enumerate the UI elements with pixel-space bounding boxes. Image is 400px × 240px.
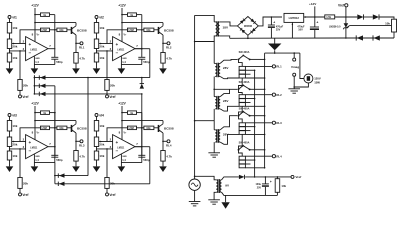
wire bottom bus column: [54, 163, 56, 184]
diode D9: [355, 35, 357, 40]
potentiometer R3b 20k: [7, 137, 11, 147]
wire lower diode line: [346, 37, 394, 39]
svg-text:+12V: +12V: [31, 102, 39, 106]
capacitor C5 470uF 25V: [270, 17, 272, 25]
wire vI3 to R3a: [9, 117, 11, 121]
wire node column x88: [87, 78, 89, 176]
ground: [93, 68, 101, 74]
reference U6 LM336-5.0: [345, 17, 347, 38]
svg-text:LM311: LM311: [30, 49, 38, 51]
diode D10: [372, 35, 374, 40]
wire vI1 to R1a: [9, 19, 11, 23]
svg-text:BC558: BC558: [77, 126, 87, 130]
wire AC source to earth: [194, 190, 196, 201]
ground op-amp: [118, 68, 126, 74]
resistor R4a 10k: [94, 121, 98, 132]
svg-text:10k: 10k: [146, 127, 151, 130]
wire pot tap to op-amp pin 2: [12, 43, 26, 45]
resistor R4c 10k: [94, 151, 98, 160]
ground 4.7k: [72, 166, 80, 172]
wire Vref output line: [245, 176, 291, 178]
ground: [6, 166, 14, 172]
ground op-amp: [31, 166, 39, 172]
svg-text:10k: 10k: [59, 127, 64, 130]
diode D7: [357, 14, 363, 19]
wire tap to terminal RL3: [245, 122, 272, 124]
wire op-amp pins 1,4 to ground: [33, 56, 35, 68]
resistor R3e 1.5M: [41, 126, 50, 130]
resistor R2d 20k: [105, 80, 109, 91]
terminal +12V: [314, 6, 316, 17]
wire bottom bus line 2: [55, 183, 150, 185]
wire output node vertical: [54, 113, 56, 147]
wire lamp to ground: [294, 83, 308, 87]
wire emitter to +12V rail: [35, 22, 76, 24]
wire divider: [9, 49, 11, 54]
resistor R19 10k: [276, 177, 278, 179]
wire bus line 1: [34, 77, 149, 79]
svg-text:10k: 10k: [99, 124, 104, 128]
resistor R1c 10k: [7, 53, 11, 62]
terminal Vmag upper: [293, 53, 295, 58]
svg-text:Vref: Vref: [109, 193, 116, 197]
wire wiper to LM336 adj: [350, 25, 392, 27]
wire capacitor to ground: [121, 64, 141, 66]
wire emitter to +12V rail: [122, 120, 163, 122]
wire feedback to output node: [137, 127, 144, 129]
svg-text:Vref: Vref: [338, 4, 345, 8]
wire group W2 taps: [245, 98, 254, 100]
capacitor C3 560p: [51, 154, 58, 156]
wire op-amp output pin 7: [135, 48, 142, 50]
svg-text:Vref: Vref: [295, 175, 302, 179]
wire T2 secondary bottom to winding group: [220, 77, 239, 79]
diode D1: [38, 75, 40, 79]
ground 4.7k: [159, 68, 167, 74]
ground T5 secondary: [221, 202, 229, 209]
svg-text:20k: 20k: [23, 84, 28, 88]
svg-text:+: +: [29, 140, 32, 145]
resistor R2g 1k pull-up: [122, 14, 128, 16]
wire group W4 taps: [245, 159, 254, 161]
svg-text:4.7k: 4.7k: [79, 56, 85, 60]
svg-text:20k: 20k: [12, 143, 17, 147]
svg-text:560p: 560p: [143, 60, 150, 64]
svg-text:LM311: LM311: [30, 147, 38, 149]
svg-text:1.5M: 1.5M: [128, 127, 134, 130]
regulator U5 LM7812: [284, 13, 304, 22]
transformer T4 28V: [214, 129, 215, 131]
+12V rail: [34, 106, 36, 140]
svg-text:+12V: +12V: [31, 4, 39, 8]
resistor R4f 10k: [144, 126, 154, 130]
capacitor C2 560p: [138, 56, 145, 58]
svg-text:10k: 10k: [385, 21, 390, 25]
wire block4 output extension: [135, 146, 150, 148]
wire feedback to output node: [50, 127, 57, 129]
transistor Q3 BC558: [71, 125, 73, 132]
svg-text:10k: 10k: [12, 124, 17, 128]
wire to ground: [96, 62, 98, 68]
wire divider: [9, 147, 11, 152]
wire regulator ground pin: [291, 22, 293, 38]
wire emitter to +12V rail: [122, 22, 163, 24]
+12V rail: [121, 106, 123, 140]
ground 4.7k: [159, 166, 167, 172]
winding group W4: [239, 150, 243, 156]
wire to ground: [9, 62, 11, 68]
wire ground arrow to lamp line: [274, 50, 276, 53]
wire T5 primary top: [195, 176, 217, 180]
op-amp U2 LM311: [113, 37, 135, 61]
wire Vref node: [335, 16, 358, 18]
wire feedback to pin 2: [20, 128, 41, 142]
wire lamp feed: [265, 52, 300, 54]
wire pot tap to op-amp pin 2: [12, 141, 26, 143]
svg-text:RL1: RL1: [79, 45, 85, 49]
wire block4 output column: [141, 94, 143, 157]
svg-text:GND: GND: [122, 156, 127, 158]
wire to transistor base: [67, 127, 71, 129]
transformer T2 28V: [214, 62, 215, 64]
resistor R2h 4.7k: [162, 43, 164, 52]
svg-text:LM311: LM311: [117, 49, 125, 51]
winding group W1: [239, 60, 243, 67]
terminal Vref bottom: [291, 175, 294, 178]
resistor R3g 1k pull-up: [35, 112, 41, 114]
wire to Vref terminal: [106, 188, 108, 193]
input terminal vI3: [8, 114, 11, 117]
svg-text:Vref: Vref: [22, 95, 29, 99]
wire feedback to pin 2: [107, 30, 128, 44]
svg-text:GND: GND: [35, 156, 40, 158]
wire vI4 to R4a: [96, 117, 98, 121]
potentiometer R2b 20k: [94, 39, 98, 49]
wire T1 primary return: [195, 36, 216, 42]
terminal RL4 right: [272, 155, 275, 158]
wire mains link: [195, 120, 215, 122]
+12V rail: [121, 8, 123, 42]
input terminal vI1: [8, 16, 11, 19]
wire bridge output to regulator: [258, 17, 282, 26]
wire to ground: [9, 160, 11, 166]
wire to ground arrow: [225, 195, 227, 202]
wire ground bus below block 1: [33, 75, 35, 94]
svg-text:+: +: [116, 42, 119, 47]
resistor R3a 10k: [7, 121, 11, 132]
transistor Q1 BC558: [71, 27, 73, 34]
resistor R4g 1k pull-up: [122, 112, 128, 114]
svg-text:10k: 10k: [99, 26, 104, 30]
svg-text:Vmag: Vmag: [291, 65, 299, 69]
wire to transistor base: [67, 29, 71, 31]
resistor R2e 1.5M: [128, 28, 137, 32]
svg-text:+12V: +12V: [118, 102, 126, 106]
svg-text:1,4: 1,4: [35, 158, 39, 162]
svg-text:RL3: RL3: [79, 143, 85, 147]
resistor R2c 10k: [94, 53, 98, 62]
transistor Q4 BC558: [158, 125, 160, 132]
wire op-amp pin 3: [10, 148, 26, 150]
wire T5 secondary top: [222, 177, 239, 180]
svg-text:20k: 20k: [12, 45, 17, 49]
resistor R1a 10k: [7, 23, 11, 34]
svg-text:28V: 28V: [223, 99, 229, 103]
svg-text:20k: 20k: [23, 182, 28, 186]
wire to Vref terminal: [19, 90, 21, 95]
diode D8: [373, 14, 379, 19]
wire vI2 to R2a: [96, 19, 98, 23]
svg-text:RL3: RL3: [276, 121, 282, 125]
wire group W3 taps: [245, 126, 254, 128]
resistor R3h 4.7k: [75, 141, 77, 150]
wire op-amp output pin 7: [48, 146, 55, 148]
wire bottom bus line 1: [55, 175, 88, 177]
wire to transistor base: [154, 127, 158, 129]
terminal RL2 right: [272, 93, 275, 96]
wire transformer primary chain: [213, 42, 215, 64]
wire bus line 3: [34, 93, 141, 95]
input terminal vI4: [95, 114, 98, 117]
resistor R3c 10k: [7, 151, 11, 160]
svg-text:16V: 16V: [298, 29, 303, 32]
svg-text:10k: 10k: [59, 29, 64, 32]
wire to potentiometer: [379, 17, 394, 19]
op-amp U4 LM311: [113, 135, 135, 159]
resistor R4e 1.5M: [128, 126, 137, 130]
wire group W2 to next switch: [239, 106, 243, 115]
wire T2 secondary top to switch: [220, 59, 237, 63]
wire block2 output extension: [135, 48, 150, 50]
svg-text:+: +: [29, 42, 32, 47]
wire tap to terminal RL4: [245, 155, 272, 157]
terminal Vref: [106, 95, 109, 98]
diode D5: [57, 173, 59, 177]
wire regulator output: [304, 16, 325, 18]
earth ground AC source: [189, 201, 201, 203]
svg-text:+12V: +12V: [118, 4, 126, 8]
resistor R3d 20k: [18, 178, 22, 189]
wire pin3 to Vref resistor: [106, 149, 108, 178]
bridge rectifier B1 W005M: [237, 17, 258, 36]
resistor R3f 10k: [57, 126, 67, 130]
wire to transistor base: [154, 29, 158, 31]
wire divider: [96, 33, 98, 39]
svg-text:SW-400A: SW-400A: [239, 107, 250, 110]
resistor R4d 20k: [105, 178, 109, 189]
svg-text:10k: 10k: [99, 56, 104, 60]
wire output node vertical: [54, 15, 56, 49]
svg-text:10k: 10k: [12, 154, 17, 158]
diode D3: [38, 92, 40, 96]
svg-text:+: +: [270, 180, 272, 184]
resistor R1e 1.5M: [41, 28, 50, 32]
terminal Vmag lower: [293, 73, 296, 76]
wire op-amp output pin 7: [135, 146, 142, 148]
wire to Vref terminal: [106, 90, 108, 95]
svg-text:28V: 28V: [223, 66, 229, 70]
svg-text:Vref: Vref: [22, 193, 29, 197]
svg-text:RL2: RL2: [276, 93, 282, 97]
svg-text:25V: 25V: [276, 29, 281, 32]
wire pin3 to Vref resistor: [19, 51, 21, 80]
wire mains bus: [195, 15, 215, 22]
ground main: [274, 38, 276, 44]
svg-text:LM336-5.0: LM336-5.0: [329, 25, 341, 28]
wire switch common column V2: [264, 53, 266, 168]
capacitor C6 470uF 16V: [314, 17, 316, 27]
wire switch SW3 output: [250, 115, 265, 117]
svg-text:10k: 10k: [146, 29, 151, 32]
capacitor C1 560p: [51, 56, 58, 58]
diode D2: [38, 84, 40, 88]
svg-text:560p: 560p: [56, 158, 63, 162]
svg-text:10k: 10k: [99, 154, 104, 158]
svg-text:10k: 10k: [12, 56, 17, 60]
potentiometer R18 10k: [392, 19, 397, 32]
svg-text:SW-400A: SW-400A: [239, 81, 250, 84]
diode D6: [57, 182, 59, 186]
wire op-amp pins 1,4 to ground: [33, 154, 35, 166]
wire pot tap to op-amp pin 2: [99, 43, 113, 45]
wire feedback to pin 2: [20, 30, 41, 44]
wire pot tap to op-amp pin 2: [99, 141, 113, 143]
wire group W3 to next switch: [239, 134, 243, 149]
wire bus line 2: [34, 85, 55, 87]
transformer T5 9V: [216, 180, 218, 193]
ground op-amp: [31, 68, 39, 74]
resistor R1h 4.7k: [75, 43, 77, 52]
terminal Vref: [19, 193, 22, 196]
op-amp U3 LM311: [26, 135, 48, 159]
wire capacitor to ground: [34, 162, 54, 164]
svg-text:+: +: [273, 21, 275, 25]
terminal RL2: [162, 43, 164, 45]
earth ground T5: [208, 199, 220, 201]
svg-text:RL4: RL4: [276, 154, 282, 158]
wire output node vertical: [141, 15, 143, 49]
input terminal vI2: [95, 16, 98, 19]
capacitor C4 560p: [138, 154, 145, 156]
earth ground T4: [208, 152, 220, 154]
resistor R2a 10k: [94, 23, 98, 34]
svg-text:1,4: 1,4: [122, 60, 126, 64]
AC source V1: [189, 179, 200, 190]
svg-text:LM311: LM311: [117, 147, 125, 149]
svg-text:+: +: [316, 21, 318, 25]
wire block3 output column: [54, 86, 56, 157]
earth ground Vmag: [288, 88, 300, 90]
wire tap common column V1: [254, 70, 256, 177]
wire T4 secondary bottom to winding group: [220, 134, 239, 144]
svg-text:1,4: 1,4: [35, 60, 39, 64]
svg-text:20k: 20k: [99, 143, 104, 147]
svg-text:1.5M: 1.5M: [128, 29, 134, 32]
wire switch SW2 output: [250, 88, 265, 90]
wire op-amp pins 1,4 to ground: [120, 56, 122, 68]
svg-text:BC558: BC558: [164, 126, 174, 130]
svg-text:vI3: vI3: [12, 113, 17, 117]
terminal RL1 right: [272, 65, 275, 68]
svg-text:RL4: RL4: [166, 143, 172, 147]
svg-text:1.5M: 1.5M: [41, 127, 47, 130]
resistor R2f 10k: [144, 28, 154, 32]
capacitor C8 100u 25V: [264, 177, 266, 184]
wire divider: [96, 131, 98, 137]
wire tap to terminal RL2: [245, 94, 272, 96]
wire tap to terminal RL1: [245, 65, 272, 67]
wire feedback to pin 2: [107, 128, 128, 142]
svg-text:10k: 10k: [281, 184, 286, 188]
svg-text:10k: 10k: [12, 26, 17, 30]
terminal RL3: [75, 141, 77, 143]
terminal RL1: [75, 43, 77, 45]
svg-text:560p: 560p: [143, 158, 150, 162]
svg-text:LM7812: LM7812: [289, 16, 300, 20]
svg-text:1,4: 1,4: [122, 158, 126, 162]
+12V rail: [34, 8, 36, 42]
svg-text:4.7k: 4.7k: [79, 154, 85, 158]
wire to ground: [96, 160, 98, 166]
svg-text:15W: 15W: [314, 80, 320, 84]
svg-text:vI4: vI4: [99, 113, 104, 117]
potentiometer R4b 20k: [94, 137, 98, 147]
svg-text:SW-400A: SW-400A: [239, 51, 250, 54]
svg-text:RL1: RL1: [276, 65, 282, 69]
wire bridge bottom to ground rail: [247, 35, 249, 38]
svg-text:25V: 25V: [257, 186, 262, 189]
wire T4 secondary top to switch: [220, 116, 237, 130]
svg-text:4.7k: 4.7k: [166, 154, 172, 158]
wire pin3 to Vref resistor: [106, 51, 108, 80]
svg-text:Vref: Vref: [109, 95, 116, 99]
wire op-amp pin 3: [10, 50, 26, 52]
wire to Vref terminal: [19, 188, 21, 193]
ground op-amp: [118, 166, 126, 172]
wire op-amp pins 1,4 to ground: [120, 154, 122, 166]
transformer T3 28V: [214, 96, 215, 98]
svg-text:1.5k: 1.5k: [326, 16, 331, 19]
wire Vmag to ground: [293, 76, 295, 89]
terminal Vref: [106, 193, 109, 196]
diode D4: [140, 84, 144, 89]
svg-text:vI1: vI1: [12, 15, 17, 19]
wire group W1 taps: [245, 69, 254, 71]
winding group W3: [239, 116, 243, 123]
svg-text:560p: 560p: [56, 60, 63, 64]
svg-text:18V: 18V: [223, 26, 229, 30]
wire T1 secondary to bridge: [220, 22, 238, 26]
winding group W2: [239, 90, 243, 95]
svg-text:20k: 20k: [110, 84, 115, 88]
wire pin3 to Vref resistor: [19, 149, 21, 178]
resistor R17 1.5k: [325, 15, 335, 19]
resistor R1g 1k pull-up: [35, 14, 41, 16]
wire feedback to output node: [50, 29, 57, 31]
wire group W1 to next switch: [239, 78, 243, 89]
lamp LP1 120V 15W: [300, 53, 304, 78]
terminal RL4: [162, 141, 164, 143]
transistor Q2 BC558: [158, 27, 160, 34]
wire ground rail right: [230, 37, 346, 39]
resistor R1f 10k: [57, 28, 67, 32]
ground 4.7k: [72, 68, 80, 74]
resistor R1d 20k: [18, 80, 22, 91]
wire switch SW4 output: [250, 149, 265, 151]
wire T3 secondary bottom to winding group: [220, 106, 239, 111]
wire bottom return: [222, 192, 278, 195]
terminal Vref: [19, 95, 22, 98]
